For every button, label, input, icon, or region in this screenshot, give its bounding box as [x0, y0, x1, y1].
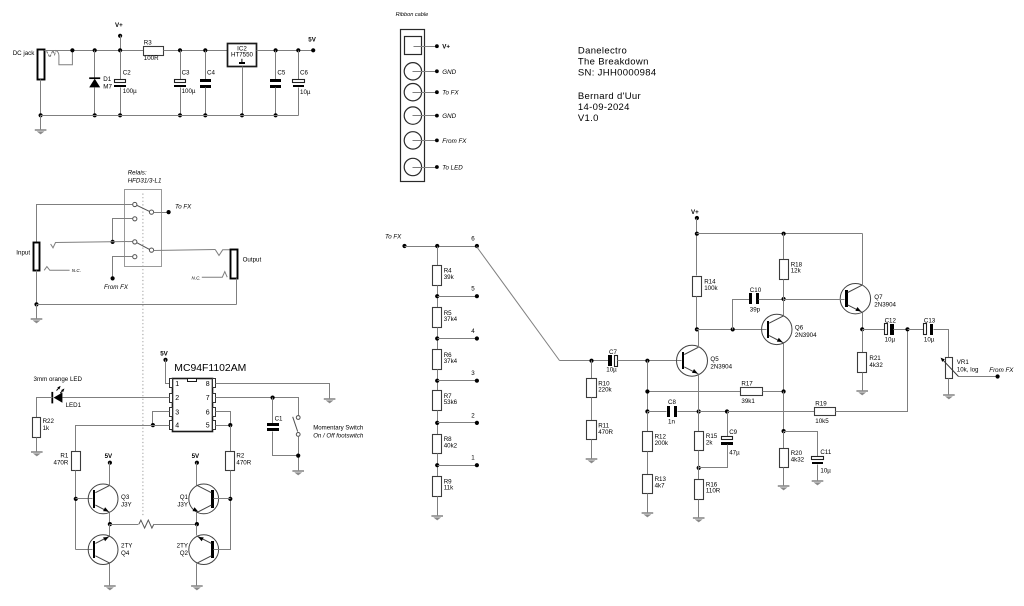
- node: [151, 423, 155, 427]
- svg-text:N.C.: N.C.: [72, 268, 81, 273]
- svg-text:V+: V+: [115, 22, 123, 29]
- node relay common: [111, 240, 115, 244]
- svg-text:N.C.: N.C.: [192, 275, 201, 280]
- net From FX (out): [959, 376, 998, 378]
- svg-text:37k4: 37k4: [444, 358, 458, 365]
- svg-text:Ribbon cable: Ribbon cable: [396, 12, 429, 18]
- svg-text:4k32: 4k32: [791, 456, 805, 463]
- wire Q3 emitter: [109, 513, 111, 525]
- svg-text:37k4: 37k4: [444, 316, 458, 323]
- svg-text:47µ: 47µ: [729, 450, 740, 457]
- resistor R6: [433, 350, 442, 370]
- wire: [698, 500, 700, 518]
- wire relay c2: [113, 219, 133, 242]
- svg-text:100k: 100k: [704, 285, 718, 292]
- svg-text:11k: 11k: [444, 485, 454, 492]
- node Q5 base: [645, 359, 649, 363]
- svg-text:GND: GND: [442, 69, 456, 76]
- wire DC feedback column: [647, 361, 649, 412]
- wire Q7 emitter: [862, 313, 864, 330]
- svg-text:4k7: 4k7: [655, 482, 666, 489]
- svg-text:Danelectro: Danelectro: [578, 45, 627, 56]
- wire audio ground rail: [37, 304, 237, 306]
- svg-text:39k: 39k: [444, 274, 455, 281]
- wire: [437, 286, 439, 308]
- ground: [812, 480, 824, 482]
- svg-text:C10: C10: [750, 287, 762, 294]
- relay contact c2: [133, 217, 137, 221]
- resistor R7: [433, 391, 442, 411]
- DC plug switch contact: [47, 50, 56, 57]
- svg-text:5: 5: [471, 286, 475, 293]
- node: [271, 396, 275, 400]
- capacitor C12: [863, 329, 885, 331]
- node Q3 base: [74, 497, 78, 501]
- wire pin4 to R1: [76, 426, 170, 452]
- ground: [104, 585, 116, 587]
- wire: [699, 411, 728, 413]
- U1 pin 1: [170, 379, 173, 388]
- resistor R22: [33, 418, 41, 438]
- ribbon pin To FX: [404, 84, 421, 101]
- svg-text:1n: 1n: [668, 418, 675, 425]
- svg-text:Q3: Q3: [121, 494, 130, 501]
- ground: [35, 129, 47, 131]
- svg-text:8: 8: [206, 381, 210, 388]
- capacitor C4: [203, 48, 207, 52]
- wire: [783, 392, 785, 432]
- capacitor C6: [296, 48, 300, 52]
- svg-text:3mm orange LED: 3mm orange LED: [34, 376, 83, 383]
- relay contact c6: [149, 248, 153, 252]
- wire IC2 ground pin: [242, 67, 244, 116]
- resistor R10: [591, 361, 593, 379]
- svg-text:39p: 39p: [750, 306, 761, 313]
- node Q6 collector: [782, 297, 786, 301]
- wire Q4 collector: [109, 564, 111, 586]
- tap 4: [435, 336, 439, 340]
- wire: [36, 438, 38, 452]
- svg-text:J3Y: J3Y: [177, 501, 188, 508]
- svg-text:The Breakdown: The Breakdown: [578, 56, 649, 67]
- svg-text:To FX: To FX: [442, 90, 459, 97]
- svg-text:C3: C3: [182, 69, 190, 76]
- transistor Q4: [88, 535, 118, 565]
- svg-text:Q7: Q7: [874, 294, 883, 301]
- resistor R14: [693, 277, 702, 297]
- capacitor C7: [608, 355, 612, 366]
- wire: [696, 297, 698, 330]
- resistor R15: [698, 412, 700, 432]
- node C9 top: [725, 409, 729, 413]
- svg-text:10µ: 10µ: [924, 337, 935, 344]
- node: [860, 327, 864, 331]
- ribbon pad V+: [405, 37, 422, 55]
- resistor R3: [144, 47, 164, 56]
- wire ground rail: [41, 115, 299, 117]
- svg-text:100R: 100R: [144, 55, 159, 62]
- U1 pin 5: [213, 421, 216, 430]
- relay contact c5: [149, 210, 153, 214]
- node: [108, 522, 112, 526]
- wire pin2 to LED: [63, 397, 170, 399]
- U1 pin 3: [170, 408, 173, 417]
- wire: [437, 411, 439, 435]
- ground: [778, 485, 790, 487]
- input tip contact: [56, 242, 133, 243]
- wire Q7 base: [784, 299, 845, 301]
- resistor R21: [862, 330, 864, 353]
- svg-text:10k5: 10k5: [815, 418, 829, 425]
- wire: [164, 50, 228, 52]
- resistor R11: [591, 398, 593, 421]
- svg-text:HT7550: HT7550: [231, 51, 254, 58]
- transistor Q3: [88, 484, 118, 514]
- resistor R16: [698, 451, 700, 480]
- wire Q5 emitter: [698, 375, 700, 412]
- wire Q6 emitter: [783, 344, 785, 392]
- svg-text:2TY: 2TY: [121, 543, 132, 550]
- wire 5V rail: [257, 50, 314, 52]
- svg-text:GND: GND: [442, 113, 456, 120]
- resistor R4: [433, 266, 442, 286]
- ground: [324, 398, 336, 400]
- transistor Q5: [677, 345, 708, 376]
- wire Q1 emitter: [196, 513, 198, 525]
- wire pin3 strap: [153, 412, 170, 426]
- svg-text:SN: JHH0000984: SN: JHH0000984: [578, 68, 657, 79]
- node C10 tap: [731, 327, 735, 331]
- node: [905, 327, 909, 331]
- svg-text:DC jack: DC jack: [13, 50, 36, 57]
- svg-text:100µ: 100µ: [182, 88, 196, 95]
- svg-text:R19: R19: [815, 401, 827, 408]
- svg-text:100µ: 100µ: [123, 88, 137, 95]
- relay blade 2: [137, 243, 150, 250]
- ground: [586, 458, 598, 460]
- svg-text:To FX: To FX: [175, 203, 192, 210]
- svg-text:C12: C12: [885, 318, 897, 325]
- svg-text:1: 1: [175, 381, 179, 388]
- svg-text:Input: Input: [16, 250, 30, 257]
- resistor R10 node: [589, 359, 593, 363]
- wire: [437, 247, 439, 266]
- svg-text:Q1: Q1: [180, 494, 189, 501]
- wire Q4 base: [76, 549, 93, 551]
- tap 5: [435, 294, 439, 298]
- svg-text:4k32: 4k32: [869, 362, 883, 369]
- svg-text:2N3904: 2N3904: [710, 363, 732, 370]
- node: [34, 302, 38, 306]
- svg-text:On / Off footswitch: On / Off footswitch: [313, 432, 364, 439]
- svg-text:5V: 5V: [192, 453, 200, 460]
- svg-text:C13: C13: [924, 318, 936, 325]
- ground: [431, 515, 443, 517]
- resistor R17: [648, 391, 741, 393]
- resistor R2: [226, 452, 235, 471]
- svg-text:Output: Output: [243, 257, 262, 264]
- svg-text:110R: 110R: [706, 488, 721, 495]
- svg-text:C4: C4: [207, 69, 215, 76]
- svg-text:Momentary Switch: Momentary Switch: [313, 425, 363, 432]
- transistor Q1: [189, 484, 219, 514]
- svg-text:Q5: Q5: [710, 356, 719, 363]
- transistor Q7: [840, 284, 870, 314]
- node ladder top: [435, 244, 439, 248]
- svg-text:6: 6: [206, 409, 210, 416]
- wire: [214, 498, 231, 500]
- svg-text:R2: R2: [236, 452, 244, 459]
- ground: [31, 318, 43, 320]
- svg-text:5: 5: [206, 423, 210, 430]
- resistor R8: [433, 435, 442, 454]
- svg-text:M7: M7: [103, 84, 112, 91]
- regulator IC2 HT7550: [228, 44, 257, 67]
- svg-text:VR1: VR1: [957, 359, 970, 366]
- relay contact c1: [133, 202, 137, 206]
- svg-text:4: 4: [175, 423, 179, 430]
- node Q1 base: [228, 497, 232, 501]
- wire selector: [477, 247, 560, 361]
- wire: [36, 305, 38, 319]
- svg-text:C9: C9: [729, 429, 737, 436]
- svg-text:3: 3: [175, 409, 179, 416]
- node: [195, 522, 199, 526]
- svg-text:1: 1: [471, 455, 475, 462]
- wire V+ rail: [697, 233, 863, 235]
- input N.C. contact: [44, 267, 69, 271]
- capacitor C1: [272, 398, 274, 424]
- wire: [76, 498, 93, 500]
- ribbon pin To LED: [404, 158, 421, 175]
- svg-text:14-09-2024: 14-09-2024: [578, 102, 630, 113]
- ground: [856, 390, 868, 392]
- wire: [591, 440, 593, 459]
- resistor R19: [728, 411, 815, 413]
- svg-text:Relais:: Relais:: [128, 170, 147, 177]
- svg-text:C1: C1: [275, 415, 283, 422]
- resistor R9: [433, 477, 442, 497]
- wire: [40, 80, 42, 116]
- U1 pin 7: [213, 394, 216, 403]
- svg-text:R17: R17: [741, 381, 753, 388]
- svg-text:To LED: To LED: [442, 165, 463, 172]
- resistor R13: [647, 452, 649, 475]
- wire R2 to Q1/Q2 bases: [214, 471, 231, 550]
- svg-text:LED1: LED1: [66, 402, 82, 409]
- svg-text:5V: 5V: [160, 351, 168, 358]
- svg-text:From FX: From FX: [442, 138, 467, 145]
- svg-text:12k: 12k: [791, 268, 802, 275]
- svg-text:4: 4: [471, 328, 475, 335]
- svg-text:MC94F1102AM: MC94F1102AM: [174, 363, 246, 374]
- node Q5 emitter tap: [697, 409, 701, 413]
- wire relay to output: [154, 250, 216, 251]
- wire: [948, 379, 950, 395]
- svg-text:2: 2: [175, 395, 179, 402]
- wire output sleeve: [236, 279, 238, 305]
- svg-text:C6: C6: [300, 69, 308, 76]
- svg-text:C7: C7: [609, 349, 617, 356]
- svg-text:C11: C11: [820, 449, 831, 456]
- node: [782, 232, 786, 236]
- U1 pin 8: [213, 379, 216, 388]
- wire pin6 strap: [216, 412, 231, 426]
- node plug junction: [70, 48, 74, 52]
- node: [782, 429, 786, 433]
- capacitor C13: [908, 329, 924, 331]
- transistor Q2: [189, 535, 219, 565]
- node: [296, 454, 300, 458]
- svg-text:2k: 2k: [706, 439, 713, 446]
- output jack J3: [231, 250, 238, 279]
- svg-text:220k: 220k: [598, 387, 612, 394]
- wire Q6 collector: [783, 300, 785, 316]
- svg-text:40k2: 40k2: [444, 442, 458, 449]
- LED LED1: [51, 392, 53, 404]
- capacitor C5: [274, 48, 278, 52]
- wire Q7 collector: [862, 234, 864, 286]
- resistor R18: [783, 234, 785, 260]
- svg-text:39k1: 39k1: [741, 398, 755, 405]
- wire Q2 collector: [196, 564, 198, 586]
- node: [645, 389, 649, 393]
- svg-text:V+: V+: [442, 44, 450, 51]
- svg-text:Q6: Q6: [795, 325, 804, 332]
- relay contact c3: [133, 240, 137, 244]
- resistor R5: [433, 308, 442, 328]
- capacitor C8: [648, 411, 667, 413]
- net From FX (relay): [113, 257, 133, 279]
- resistor R12: [647, 412, 649, 432]
- svg-text:10µ: 10µ: [885, 337, 896, 344]
- ribbon pin GND: [404, 63, 421, 80]
- svg-text:200k: 200k: [655, 440, 669, 447]
- wire top rail: [45, 50, 144, 52]
- relay coil L1: [110, 524, 139, 526]
- capacitor C10: [733, 300, 750, 330]
- svg-text:J3Y: J3Y: [121, 501, 132, 508]
- capacitor C2: [120, 51, 122, 80]
- wire: [437, 370, 439, 391]
- relay contact c4: [133, 255, 137, 259]
- diode D1: [93, 48, 97, 52]
- relay blade 1: [137, 205, 150, 211]
- U1 pin 4: [170, 421, 173, 430]
- ground: [642, 512, 654, 514]
- svg-text:R3: R3: [144, 40, 152, 47]
- capacitor C9: [727, 412, 729, 437]
- wire pin5: [216, 425, 231, 427]
- resistor R20: [783, 432, 785, 449]
- svg-text:C5: C5: [277, 69, 285, 76]
- tap 2: [435, 421, 439, 425]
- ribbon pin From FX: [404, 132, 421, 149]
- node C8 left: [645, 409, 649, 413]
- node: [695, 232, 699, 236]
- svg-text:Q2: Q2: [180, 550, 189, 557]
- momentary switch SW1: [296, 416, 300, 420]
- svg-text:From FX: From FX: [989, 367, 1014, 374]
- svg-text:D1: D1: [103, 76, 111, 83]
- wire: [437, 328, 439, 350]
- ground: [31, 451, 43, 453]
- wire: [647, 494, 649, 513]
- tap 1: [435, 463, 439, 467]
- wire: [437, 454, 439, 477]
- svg-text:3: 3: [471, 370, 475, 377]
- U1 pin 2: [170, 394, 173, 403]
- ground: [292, 470, 304, 472]
- node Q5 collector: [695, 327, 699, 331]
- node: [228, 423, 232, 427]
- wire input sleeve: [36, 271, 38, 305]
- svg-text:R1: R1: [60, 452, 68, 459]
- svg-text:R21: R21: [869, 355, 881, 362]
- svg-text:5V: 5V: [308, 37, 316, 44]
- svg-text:C2: C2: [123, 69, 131, 76]
- svg-text:HFD31/3-L1: HFD31/3-L1: [128, 178, 162, 185]
- node: [697, 466, 701, 470]
- svg-text:To FX: To FX: [385, 233, 402, 240]
- input jack J2: [34, 243, 40, 271]
- svg-text:C8: C8: [668, 399, 676, 406]
- wire Q2 emitter: [196, 525, 198, 536]
- svg-text:2TY: 2TY: [177, 543, 188, 550]
- ground: [693, 517, 705, 519]
- svg-text:1k: 1k: [43, 425, 50, 432]
- ground: [191, 585, 203, 587]
- svg-text:2N3904: 2N3904: [795, 332, 817, 339]
- node: [782, 389, 786, 393]
- svg-text:53k6: 53k6: [444, 399, 458, 406]
- node GND rail left: [39, 113, 43, 117]
- relay mechanical link (dotted): [142, 194, 144, 517]
- svg-text:470R: 470R: [598, 429, 613, 436]
- relay body: [125, 190, 162, 267]
- svg-text:2N3904: 2N3904: [874, 301, 896, 308]
- potentiometer VR1: [946, 358, 953, 379]
- svg-text:From FX: From FX: [104, 284, 129, 291]
- resistor R1: [72, 452, 81, 471]
- svg-text:7: 7: [206, 395, 210, 402]
- wire Q4 emitter: [109, 525, 111, 536]
- net To FX (relay): [154, 212, 169, 214]
- wire pin8 to ground: [216, 384, 330, 399]
- capacitor C3: [178, 48, 182, 52]
- ground: [943, 394, 955, 396]
- svg-text:10µ: 10µ: [820, 468, 831, 475]
- wire Q6 base line: [697, 329, 767, 331]
- output N.C. contact: [202, 272, 227, 278]
- wire Q5 collector: [698, 330, 700, 348]
- svg-text:470R: 470R: [54, 460, 69, 467]
- capacitor C11: [784, 432, 818, 457]
- U1 pin 6: [213, 408, 216, 417]
- svg-text:V+: V+: [691, 209, 699, 216]
- wire R1 to Q3/Q4 bases: [75, 471, 77, 550]
- svg-text:6: 6: [471, 236, 475, 243]
- svg-text:R22: R22: [43, 418, 55, 425]
- wire Q5 base line: [560, 360, 609, 362]
- wire: [437, 497, 439, 516]
- svg-text:10µ: 10µ: [300, 89, 311, 96]
- wire input to relay: [37, 205, 133, 243]
- svg-text:2: 2: [471, 412, 475, 419]
- DC jack J1: [38, 50, 45, 80]
- IC U1 MC94F1102AM: [173, 379, 213, 432]
- transistor Q6: [762, 314, 792, 344]
